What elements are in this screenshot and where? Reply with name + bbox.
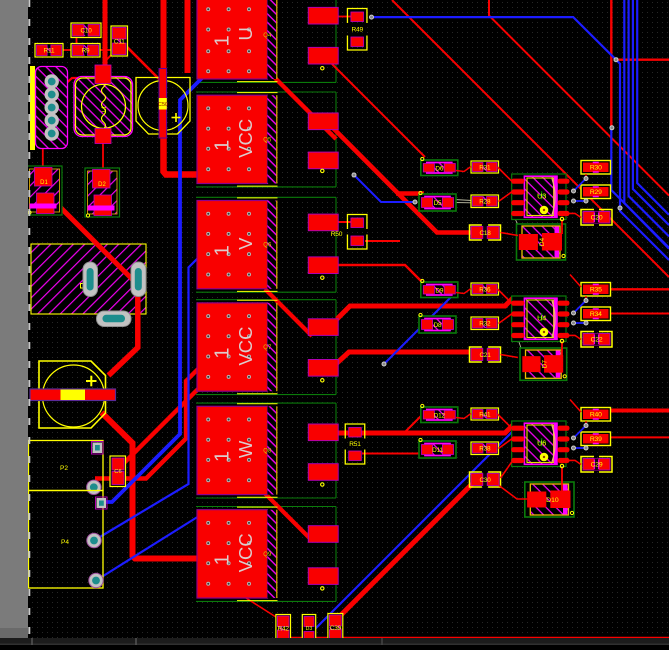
- svg-text:C21: C21: [479, 352, 491, 359]
- svg-text:VCC: VCC: [235, 533, 256, 572]
- resistor R32: [471, 317, 499, 330]
- svg-text:D11: D11: [432, 447, 443, 454]
- power module Q6 (V): [197, 198, 278, 292]
- svg-text:L1: L1: [102, 105, 108, 112]
- wire R32 to U4 pin2: [499, 314, 512, 324]
- resistor R51: [345, 424, 365, 464]
- svg-text:C11: C11: [114, 38, 125, 45]
- dual diode D4: [517, 224, 566, 260]
- wire R34 to right edge: [610, 313, 669, 315]
- svg-text:D2: D2: [98, 182, 106, 188]
- svg-text:1: 1: [212, 245, 234, 256]
- resistor R11: [35, 44, 63, 58]
- svg-text:C6: C6: [114, 469, 121, 475]
- diode D1: [27, 166, 62, 215]
- capacitor C30: [470, 472, 501, 487]
- slot pad 2: [131, 262, 146, 297]
- wire R36 to U4 pin1: [498, 289, 512, 303]
- wire red vertical top into C50 bar: [161, 0, 167, 70]
- wire R38 to U6 pin2: [499, 439, 512, 449]
- module region outlines (green): [196, 0, 336, 601]
- ratsnest line U3 to D7: [514, 216, 528, 249]
- resistor R35: [581, 283, 611, 297]
- hatched region (mounting area): [31, 244, 146, 314]
- wire blue P4 round pad to M3: [94, 249, 207, 541]
- wire R35 to right edge: [610, 288, 669, 290]
- capacitor C10: [71, 23, 101, 38]
- wire thick stub into D5 row: [396, 191, 424, 196]
- svg-text:C10: C10: [80, 28, 92, 35]
- wire big cap to M6: [102, 413, 199, 559]
- wire R41 to U6 pin1: [498, 414, 512, 428]
- wire M4 to C6 top diagonal: [124, 386, 201, 463]
- diode D6: [421, 157, 458, 175]
- wire thick M3 corner diagonal: [265, 289, 312, 336]
- svg-text:V: V: [235, 237, 256, 250]
- hatched region pin1 marker: [81, 284, 85, 289]
- wire blue P4 square pad to M1: [101, 71, 210, 503]
- svg-text:R39: R39: [590, 436, 602, 443]
- power module Q9 (VCC): [197, 507, 278, 600]
- wire C11 to L1 junction: [105, 53, 114, 62]
- wire cluster3 D10 feed diagonal: [404, 414, 423, 433]
- svg-text:R35: R35: [590, 287, 602, 294]
- svg-text:R34: R34: [590, 311, 602, 318]
- svg-text:U3: U3: [537, 191, 546, 200]
- wire P1 pin2 to L1: [53, 78, 94, 95]
- wire slot2 down to big cap: [109, 294, 138, 376]
- svg-text:R51: R51: [349, 441, 361, 448]
- power module Q5 (VCC): [197, 93, 278, 187]
- wire M6 to R42 diagonal: [246, 598, 278, 618]
- wire R50 feed top: [338, 221, 352, 223]
- resistor R40: [581, 408, 611, 422]
- svg-text:C18: C18: [479, 230, 491, 237]
- svg-text:P2: P2: [60, 465, 68, 472]
- wire thick cluster3 bar into U6 pin1: [338, 425, 513, 433]
- net nodes and blue stubs: [574, 179, 587, 192]
- wire thick M1 corner diagonal: [266, 69, 336, 139]
- diode D2: [85, 168, 120, 217]
- svg-text:D5: D5: [434, 200, 442, 207]
- connector P4: [29, 491, 108, 589]
- svg-text:D6: D6: [435, 165, 443, 172]
- wire R28 to U3 pin2: [499, 192, 512, 202]
- wire blue horizontal from R49: [372, 17, 617, 60]
- svg-text:D7: D7: [541, 360, 548, 369]
- bottom status strip: [0, 638, 669, 645]
- capacitor C49 (large electrolytic): [30, 361, 116, 428]
- board edge dashed line: [28, 0, 30, 638]
- svg-text:R9: R9: [82, 48, 90, 55]
- capacitor C18: [470, 225, 501, 240]
- capacitor C21: [470, 347, 501, 362]
- wire vertical to dual diode: [561, 467, 563, 493]
- svg-text:P4: P4: [61, 539, 69, 546]
- svg-text:C22: C22: [591, 337, 603, 344]
- driver IC U6: [511, 421, 569, 467]
- svg-text:1: 1: [212, 554, 234, 565]
- svg-text:R11: R11: [44, 48, 55, 55]
- svg-text:Q9: Q9: [263, 552, 272, 558]
- svg-text:1: 1: [212, 140, 234, 151]
- wire C11 to C50 diagonal: [125, 45, 161, 81]
- svg-text:R29: R29: [590, 189, 602, 196]
- wire R50 out bottom: [365, 240, 400, 242]
- connector P1: [30, 66, 68, 150]
- wire R40 pad stub: [585, 421, 587, 426]
- wire red diagonal B into D6: [332, 64, 425, 157]
- wire blue long diagonal to U6: [299, 431, 513, 645]
- diode D12: [421, 404, 458, 422]
- wire thick R40 to right edge: [610, 409, 669, 413]
- node on blue bundle: [618, 206, 622, 210]
- capacitor C50 (electrolytic): [136, 69, 190, 139]
- capacitor C6: [110, 456, 126, 487]
- ratsnest lines cluster1: [454, 200, 472, 201]
- power module Q4 (U): [197, 0, 278, 82]
- svg-text:C20: C20: [591, 215, 603, 222]
- svg-text:U4: U4: [537, 313, 546, 322]
- svg-text:Q6: Q6: [263, 243, 272, 249]
- slot pad 1: [83, 262, 98, 297]
- wire red vertical top into L1: [103, 0, 108, 66]
- wire R31 to U3 pin1: [498, 167, 512, 181]
- diode D11: [419, 438, 456, 458]
- connector P2: [29, 441, 104, 495]
- svg-text:C30: C30: [479, 477, 491, 484]
- svg-text:1: 1: [212, 35, 234, 46]
- wire red vertical top x187: [185, 0, 191, 73]
- net nodes and blue stubs: [574, 301, 587, 314]
- power module Q8 (W): [197, 404, 278, 498]
- driver IC U4: [511, 296, 569, 342]
- svg-text:R36: R36: [479, 286, 491, 293]
- svg-text:Q4: Q4: [263, 33, 272, 39]
- wire vertical to dual diode: [561, 220, 563, 235]
- resistor R28: [471, 195, 499, 208]
- capacitor C20: [581, 210, 612, 226]
- wire blue bundle line 3: [629, 0, 669, 236]
- svg-text:Q8: Q8: [263, 448, 272, 454]
- svg-text:D4: D4: [539, 237, 546, 246]
- dual diode D7: [520, 348, 567, 380]
- wire C50 to module M2: [164, 138, 199, 175]
- resistor R9: [71, 44, 100, 58]
- wire blue stub cluster2 node to D9: [384, 291, 457, 364]
- wire blue bundle line 2: [624, 0, 669, 249]
- diode D3 (bottom): [302, 615, 315, 643]
- wire thick M5 corner diagonal: [265, 494, 311, 540]
- node cluster2 blue diag: [382, 362, 386, 366]
- wire blue bundle line 1: [616, 60, 669, 260]
- svg-text:D3: D3: [306, 626, 313, 632]
- svg-text:R32: R32: [479, 321, 491, 328]
- svg-text:R30: R30: [590, 165, 602, 172]
- wire C30 to dual diode: [499, 486, 527, 500]
- wire blue bundle line 4: [633, 0, 669, 225]
- svg-text:1: 1: [212, 347, 234, 358]
- resistor R50: [331, 215, 367, 250]
- svg-text:R42: R42: [278, 626, 290, 633]
- svg-text:R38: R38: [479, 446, 491, 453]
- wire thick trace T1 pad->C18: [333, 128, 471, 233]
- module pad column: [308, 7, 338, 590]
- resistor R34: [581, 307, 611, 321]
- wire blue bundle line 5: [637, 0, 669, 215]
- resistor R36: [471, 283, 499, 295]
- svg-text:R40: R40: [590, 412, 602, 419]
- resistor R49: [347, 9, 367, 51]
- wire C10 to R9: [76, 36, 78, 45]
- svg-text:U6: U6: [537, 438, 546, 447]
- wire feed into R40: [570, 400, 581, 413]
- wire U3 pin4 to C20: [570, 213, 582, 217]
- wire red diagonal A top-right: [392, 0, 669, 277]
- diode D8: [419, 313, 456, 333]
- wire cluster2 D9 feed: [338, 265, 423, 283]
- svg-text:R50: R50: [331, 231, 343, 238]
- svg-text:D8: D8: [434, 322, 442, 329]
- capacitor C29: [581, 457, 612, 473]
- node top-right junction: [614, 58, 618, 62]
- resistor R31: [471, 161, 499, 173]
- wire P1 pin5 to D1: [42, 142, 44, 170]
- svg-text:D12: D12: [434, 412, 446, 419]
- wire feed into R35: [570, 275, 581, 288]
- svg-text:R41: R41: [479, 411, 491, 418]
- wire R35 pad stub: [585, 296, 587, 301]
- resistor R29: [581, 185, 611, 199]
- wire thick cluster2 bar1 into U4 pin1: [337, 298, 513, 319]
- svg-text:R49: R49: [351, 26, 363, 33]
- slot pad 3 (horizontal): [97, 311, 132, 327]
- wire R9 to C11: [99, 49, 113, 51]
- svg-text:U: U: [235, 27, 256, 40]
- svg-text:1: 1: [212, 451, 234, 462]
- driver IC U3: [511, 174, 569, 220]
- wire red vertical to node x611: [610, 0, 612, 128]
- svg-text:W: W: [235, 440, 256, 458]
- wire C21 to dual diode: [501, 355, 519, 358]
- svg-text:Q5: Q5: [263, 137, 272, 143]
- wire C6 bottom up to M4: [124, 368, 199, 479]
- capacitor C22: [581, 332, 612, 348]
- wire R30 pad stub: [585, 174, 587, 179]
- resistor R39: [581, 432, 611, 446]
- resistor R41: [471, 408, 499, 420]
- dual diode D10: [525, 482, 574, 517]
- wire D6 to R31: [456, 167, 471, 172]
- resistor R42: [276, 615, 291, 643]
- wire red horizontal y60 to right edge: [616, 59, 669, 61]
- wire vertical to dual diode: [561, 342, 563, 359]
- svg-text:D10: D10: [546, 497, 559, 504]
- wire R51 to D11: [362, 453, 421, 455]
- wire blue below node x611: [611, 128, 669, 248]
- wire bottom horizontal y637: [289, 637, 669, 639]
- resistor R30: [581, 161, 611, 175]
- node R49 blue start: [370, 15, 374, 19]
- wire D12 to R41: [456, 414, 471, 419]
- svg-text:VCC: VCC: [235, 327, 256, 366]
- svg-text:C50: C50: [158, 102, 168, 108]
- wire blue stub cluster1: [354, 175, 415, 202]
- svg-text:C39: C39: [330, 625, 342, 632]
- wire U6 pin4 to C29: [570, 460, 582, 464]
- wire D9 to R36: [456, 289, 471, 294]
- wire thick C30 to C39 diagonal: [336, 484, 472, 620]
- wire R11 to R9: [61, 49, 73, 51]
- svg-text:Q7: Q7: [263, 345, 272, 351]
- capacitor C39: [328, 614, 343, 643]
- net nodes and blue stubs: [574, 426, 587, 439]
- wire red corner diagonal D: [489, 0, 669, 196]
- capacitor C11: [111, 26, 128, 56]
- wire D1 to slot2 thick diagonal: [50, 197, 133, 280]
- wire thick cluster2 bar2 into C23: [337, 352, 470, 363]
- panel gray strip left: [0, 0, 28, 638]
- wire U4 pin4 to C22: [570, 335, 582, 339]
- node cluster1 blue stub ends: [352, 173, 356, 177]
- svg-text:R28: R28: [479, 199, 491, 206]
- diode D9: [421, 279, 458, 297]
- wire L1 to D2: [102, 143, 104, 170]
- wire P2 pad to C6: [95, 476, 113, 480]
- wire R39 to right edge: [610, 436, 669, 438]
- wire R49 feed: [338, 16, 351, 18]
- wire blue P4 round pad2 to M6: [96, 516, 199, 581]
- svg-text:R31: R31: [479, 164, 491, 171]
- wire C18 to dual diode: [501, 233, 519, 236]
- node x611 bend: [610, 126, 614, 130]
- ratsnest line U4 to D7b: [516, 333, 528, 369]
- resistor R38: [471, 442, 499, 455]
- svg-text:C29: C29: [591, 462, 603, 469]
- svg-text:D9: D9: [435, 287, 443, 294]
- inductor L1: [74, 65, 133, 144]
- svg-text:VCC: VCC: [235, 119, 256, 158]
- svg-text:D1: D1: [40, 180, 48, 186]
- power module Q7 (VCC): [197, 300, 278, 394]
- diode D5: [419, 191, 456, 211]
